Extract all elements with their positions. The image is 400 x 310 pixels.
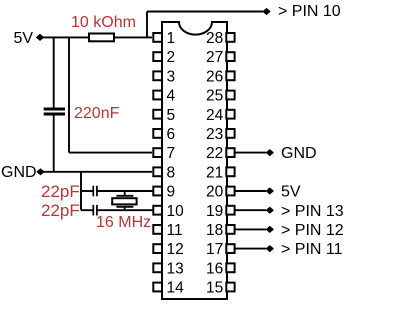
U1 pin 21 <box>206 164 235 181</box>
node PIN 12 <box>266 226 274 233</box>
svg-text:28: 28 <box>206 30 223 47</box>
U1 pin 25 <box>206 88 235 105</box>
svg-text:11: 11 <box>167 222 183 239</box>
svg-text:> PIN 10: > PIN 10 <box>278 3 341 20</box>
wire U1 pin 19 to PIN 13 <box>236 209 267 211</box>
U1 pin 26 <box>206 68 235 85</box>
svg-text:> PIN 11: > PIN 11 <box>281 241 343 258</box>
wire crystal bottom stub <box>124 207 126 210</box>
svg-text:5V: 5V <box>14 30 34 47</box>
svg-text:1: 1 <box>167 30 176 47</box>
U1 pin 16 <box>206 260 235 277</box>
svg-text:22: 22 <box>206 145 223 162</box>
svg-text:10: 10 <box>167 203 185 220</box>
svg-text:15: 15 <box>206 280 223 297</box>
U1 pin 6 <box>153 126 175 143</box>
U1 pin 12 <box>153 241 183 258</box>
svg-text:14: 14 <box>167 280 185 297</box>
svg-text:10 kOhm: 10 kOhm <box>71 14 136 31</box>
node PIN 13 <box>266 207 274 214</box>
U1 pin 24 <box>206 107 235 124</box>
wire GND rail to U1 pin 8 <box>41 171 153 173</box>
svg-text:20: 20 <box>206 184 224 201</box>
svg-text:5: 5 <box>167 107 176 124</box>
U1 pin 11 <box>153 222 182 239</box>
node 5V (right) <box>266 187 274 194</box>
U1 pin 9 <box>153 184 175 201</box>
U1 pin 20 <box>206 184 235 201</box>
svg-text:GND: GND <box>1 164 37 181</box>
svg-text:220nF: 220nF <box>74 105 120 122</box>
U1 pin 18 <box>206 222 235 239</box>
U1 pin 8 <box>153 164 175 181</box>
svg-text:GND: GND <box>281 145 317 162</box>
svg-text:18: 18 <box>206 222 223 239</box>
svg-text:9: 9 <box>167 184 176 201</box>
node PIN 10 <box>262 8 270 15</box>
svg-text:2: 2 <box>167 49 176 66</box>
svg-text:25: 25 <box>206 88 223 105</box>
wire 5V rail down to VCC branch <box>68 37 70 153</box>
U1 pin 17 <box>206 241 235 258</box>
wire U1 pin 18 to PIN 12 <box>236 228 267 230</box>
svg-text:16 MHz: 16 MHz <box>96 214 151 231</box>
wire 5V rail to resistor R1 <box>40 36 89 38</box>
U1 pin 2 <box>153 49 175 66</box>
wire C1 to GND rail <box>53 116 55 172</box>
wire 5V rail down to C1 <box>53 37 55 108</box>
U1 pin 13 <box>153 260 183 277</box>
capacitor C2 <box>93 186 97 197</box>
IC U1 body (28-pin DIP, ATmega328) <box>162 22 227 299</box>
node 5V (left supply) <box>36 34 44 41</box>
U1 pin 27 <box>206 49 235 66</box>
U1 pin 3 <box>153 68 175 85</box>
U1 pin 14 <box>153 280 184 297</box>
svg-text:21: 21 <box>206 164 223 181</box>
U1 pin 1 <box>153 30 175 47</box>
svg-text:3: 3 <box>167 68 176 85</box>
svg-text:22pF: 22pF <box>41 201 80 220</box>
wire U1 pin 17 to PIN 11 <box>236 248 267 250</box>
svg-text:> PIN 13: > PIN 13 <box>281 203 344 220</box>
wire U1 pin 20 to 5V <box>236 190 267 192</box>
svg-text:26: 26 <box>206 68 223 85</box>
wire crystal top stub <box>124 191 126 196</box>
wire GND rail down to crystal caps <box>80 172 82 210</box>
U1 pin 22 <box>206 145 235 162</box>
wire C3 to U1 pin 10 <box>98 209 153 211</box>
svg-text:23: 23 <box>206 126 223 143</box>
svg-text:> PIN 12: > PIN 12 <box>281 222 344 239</box>
svg-text:12: 12 <box>167 241 184 258</box>
wire crystal-cap rail to C2 <box>81 190 93 192</box>
crystal Y1 <box>112 196 136 207</box>
capacitor C1 <box>44 109 65 114</box>
U1 pin 28 <box>206 30 235 47</box>
svg-text:4: 4 <box>167 88 176 105</box>
wire R1 to U1 pin 1 <box>114 36 152 38</box>
wire crystal-cap rail to C3 <box>81 209 93 211</box>
U1 pin 5 <box>153 107 175 124</box>
svg-text:7: 7 <box>167 145 176 162</box>
U1 pin 15 <box>206 280 235 297</box>
capacitor C3 <box>93 205 97 216</box>
svg-text:13: 13 <box>167 260 184 277</box>
svg-text:24: 24 <box>206 107 224 124</box>
svg-text:6: 6 <box>167 126 176 143</box>
node GND (right) <box>266 149 274 156</box>
svg-text:16: 16 <box>206 260 223 277</box>
node PIN 11 <box>266 245 274 252</box>
wire U1 pin 22 to GND <box>236 152 267 154</box>
svg-text:8: 8 <box>167 164 176 181</box>
node GND (left supply) <box>36 168 44 175</box>
U1 pin 23 <box>206 126 235 143</box>
resistor R1 <box>89 34 114 42</box>
svg-text:5V: 5V <box>281 184 301 201</box>
svg-text:27: 27 <box>206 49 223 66</box>
U1 pin 4 <box>153 88 175 105</box>
wire reset net vertical riser <box>146 12 148 39</box>
wire C2 to U1 pin 9 <box>98 190 153 192</box>
wire VCC branch to U1 pin 7 <box>69 152 152 154</box>
wire reset net to PIN 10 <box>147 11 263 13</box>
svg-text:17: 17 <box>206 241 223 258</box>
U1 pin 10 <box>153 203 184 220</box>
U1 pin 19 <box>206 203 235 220</box>
svg-text:19: 19 <box>206 203 223 220</box>
svg-text:22pF: 22pF <box>41 182 80 201</box>
U1 pin 7 <box>153 145 175 162</box>
